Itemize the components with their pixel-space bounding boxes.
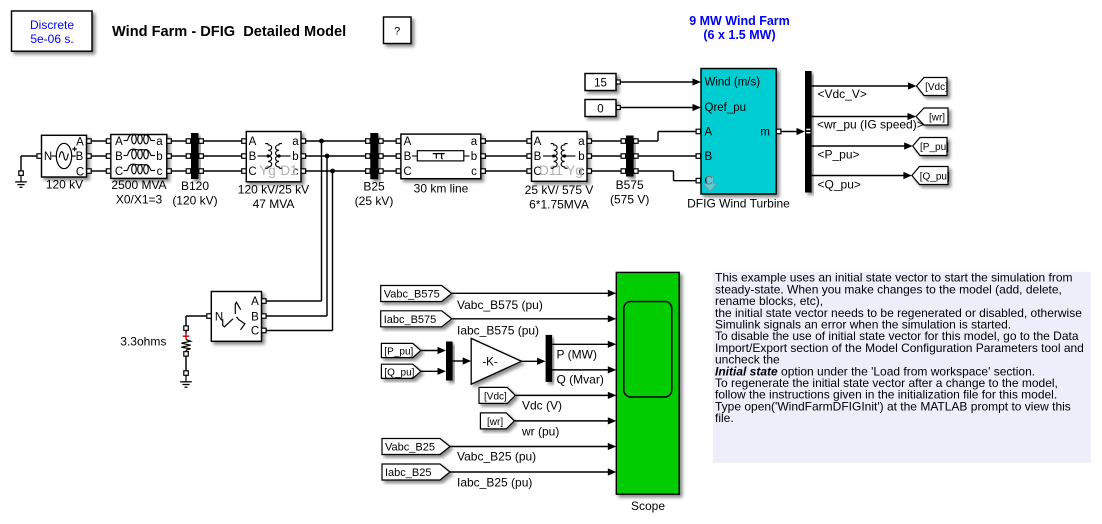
svg-text:120 kV: 120 kV: [46, 178, 83, 192]
svg-text:A: A: [534, 136, 542, 148]
svg-text:Vabc_B575 (pu): Vabc_B575 (pu): [457, 298, 543, 312]
svg-text:a: a: [292, 136, 299, 148]
svg-text:15: 15: [594, 77, 607, 89]
svg-text:Iabc_B575: Iabc_B575: [384, 314, 437, 326]
svg-text:a: a: [471, 136, 478, 148]
svg-text:B120: B120: [181, 179, 209, 193]
svg-text:[Vdc]: [Vdc]: [484, 391, 507, 402]
svg-text:B575: B575: [616, 178, 644, 192]
svg-text:file.: file.: [715, 411, 734, 425]
svg-text:120 kV/25 kV: 120 kV/25 kV: [238, 183, 309, 197]
svg-text:Iabc_B575 (pu): Iabc_B575 (pu): [457, 324, 539, 338]
svg-text:Scope: Scope: [631, 499, 665, 513]
svg-text:(575 V): (575 V): [610, 193, 649, 207]
svg-text:B: B: [251, 311, 259, 323]
svg-text:C: C: [76, 166, 84, 178]
svg-text:C: C: [115, 166, 123, 178]
svg-text:Vabc_B25: Vabc_B25: [385, 442, 435, 454]
svg-text:B: B: [249, 151, 257, 163]
svg-text:A: A: [404, 136, 412, 148]
svg-text:Wind Farm - DFIG Detailed Mod: Wind Farm - DFIG Detailed Model: [112, 24, 346, 40]
svg-text:C: C: [248, 166, 256, 178]
svg-text:B25: B25: [363, 180, 385, 194]
svg-text:(6 x 1.5 MW): (6 x 1.5 MW): [703, 28, 775, 42]
svg-text:A: A: [115, 136, 123, 148]
svg-text:3.3ohms: 3.3ohms: [120, 335, 166, 349]
svg-text:D11: D11: [539, 163, 563, 178]
svg-text:47 MVA: 47 MVA: [253, 197, 295, 211]
svg-text:[P_pu]: [P_pu]: [920, 142, 949, 153]
svg-text:c: c: [471, 166, 477, 178]
svg-text:<wr_pu (IG speed)>: <wr_pu (IG speed)>: [817, 118, 924, 132]
svg-text:N: N: [44, 151, 52, 163]
svg-text:wr (pu): wr (pu): [521, 425, 559, 439]
svg-text:A: A: [705, 127, 713, 139]
svg-text:Iabc_B25 (pu): Iabc_B25 (pu): [457, 476, 532, 490]
svg-text:[P_pu]: [P_pu]: [384, 347, 413, 358]
svg-text:[Vdc]: [Vdc]: [925, 82, 948, 93]
svg-text:Vabc_B575: Vabc_B575: [384, 289, 440, 301]
svg-text:-K-: -K-: [482, 356, 498, 368]
svg-text:D1: D1: [280, 163, 297, 178]
svg-text:B: B: [76, 151, 84, 163]
svg-text:Wind (m/s): Wind (m/s): [705, 77, 761, 89]
svg-text:c: c: [157, 166, 163, 178]
svg-text:b: b: [471, 151, 477, 163]
svg-text:<Vdc_V>: <Vdc_V>: [818, 87, 867, 101]
svg-text:(25 kV): (25 kV): [355, 194, 394, 208]
svg-text:Yg: Yg: [566, 163, 583, 178]
svg-text:b: b: [156, 151, 162, 163]
svg-text:<P_pu>: <P_pu>: [818, 148, 860, 162]
svg-text:B: B: [404, 151, 412, 163]
svg-text:5e-06 s.: 5e-06 s.: [30, 32, 73, 46]
svg-text:6*1.75MVA: 6*1.75MVA: [529, 198, 589, 212]
svg-text:a: a: [156, 136, 163, 148]
svg-text:b: b: [292, 151, 298, 163]
svg-text:Vdc (V): Vdc (V): [522, 399, 562, 413]
svg-text:[wr]: [wr]: [929, 113, 945, 124]
svg-text:[Q_pu]: [Q_pu]: [920, 172, 950, 183]
svg-text:<Q_pu>: <Q_pu>: [818, 178, 861, 192]
svg-text:9 MW Wind Farm: 9 MW Wind Farm: [689, 14, 790, 28]
svg-text:[Q_pu]: [Q_pu]: [384, 367, 414, 378]
svg-text:A: A: [251, 296, 259, 308]
svg-text:Discrete: Discrete: [30, 18, 74, 32]
svg-text:A: A: [249, 136, 257, 148]
svg-text:0: 0: [597, 103, 603, 115]
svg-text:P (MW): P (MW): [557, 348, 597, 362]
svg-text:25 kV/ 575 V: 25 kV/ 575 V: [525, 183, 594, 197]
svg-text:30 km line: 30 km line: [414, 182, 469, 196]
svg-text:2500 MVA: 2500 MVA: [111, 178, 166, 192]
svg-text:Vabc_B25 (pu): Vabc_B25 (pu): [457, 450, 536, 464]
svg-text:?: ?: [394, 26, 400, 38]
svg-text:(120 kV): (120 kV): [172, 194, 217, 208]
svg-text:C: C: [403, 166, 411, 178]
svg-text:Qref_pu: Qref_pu: [705, 102, 747, 114]
svg-text:C: C: [251, 326, 259, 338]
svg-text:B: B: [115, 151, 123, 163]
svg-text:A: A: [76, 136, 84, 148]
svg-text:Yg: Yg: [259, 163, 276, 178]
svg-text:m: m: [760, 127, 770, 139]
svg-text:N: N: [215, 311, 223, 323]
svg-text:a: a: [578, 136, 585, 148]
svg-text:B: B: [705, 151, 713, 163]
svg-text:[wr]: [wr]: [487, 417, 503, 428]
svg-text:DFIG Wind Turbine: DFIG Wind Turbine: [687, 197, 790, 211]
svg-text:Iabc_B25: Iabc_B25: [385, 467, 431, 479]
svg-text:B: B: [534, 151, 542, 163]
svg-text:b: b: [578, 151, 584, 163]
svg-text:Type open('WindFarmDFIGInit'): Type open('WindFarmDFIGInit') at the MAT…: [715, 399, 1071, 413]
svg-text:X0/X1=3: X0/X1=3: [116, 193, 163, 207]
svg-text:Q (Mvar): Q (Mvar): [557, 373, 604, 387]
